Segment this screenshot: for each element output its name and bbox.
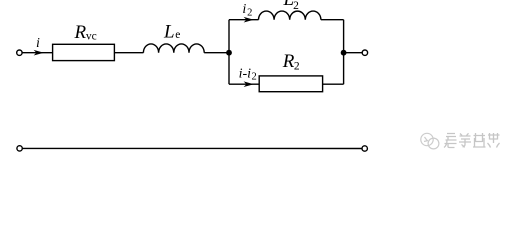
svg-text:R: R — [74, 22, 87, 43]
node A junction dot — [226, 50, 232, 56]
svg-text:vc: vc — [86, 31, 97, 43]
svg-text:2: 2 — [252, 72, 257, 83]
svg-text:2: 2 — [247, 7, 252, 18]
svg-text:2: 2 — [293, 0, 299, 12]
svg-text:2: 2 — [294, 61, 300, 73]
inductor L2 — [259, 11, 321, 20]
resistor R2 — [259, 76, 322, 92]
wire node B to output terminal — [344, 52, 363, 54]
svg-text:i: i — [36, 36, 40, 51]
wire right vertical of parallel loop — [343, 20, 345, 85]
arrow current i2 — [244, 17, 254, 23]
arrow current i-i2 — [244, 81, 254, 87]
wire bottom rail — [22, 147, 362, 149]
wire input — [22, 52, 52, 54]
terminal bottom-left — [17, 146, 22, 151]
inductor Le — [143, 44, 204, 53]
svg-text:i: i — [242, 2, 246, 17]
terminal top-left — [17, 50, 22, 55]
node B junction dot — [341, 50, 347, 56]
watermark logo — [421, 133, 439, 149]
svg-text:R: R — [282, 51, 295, 72]
resistor Rvc — [53, 44, 115, 60]
wire top branch — [229, 19, 259, 21]
wire Le to node A — [204, 52, 229, 54]
svg-text:i-i: i-i — [239, 66, 252, 81]
arrow current i — [34, 50, 44, 56]
wire left vertical of parallel loop — [228, 20, 230, 85]
wire Rvc to Le — [114, 52, 143, 54]
terminal bottom-right — [362, 146, 367, 151]
wire bottom branch right — [323, 83, 344, 85]
watermark text 声学世界 (drawn) — [444, 133, 500, 148]
wire L2 to right vertical — [321, 19, 344, 21]
svg-text:L: L — [163, 22, 175, 43]
terminal top-right — [362, 50, 367, 55]
wire bottom branch left — [229, 83, 259, 85]
svg-text:e: e — [175, 29, 180, 41]
